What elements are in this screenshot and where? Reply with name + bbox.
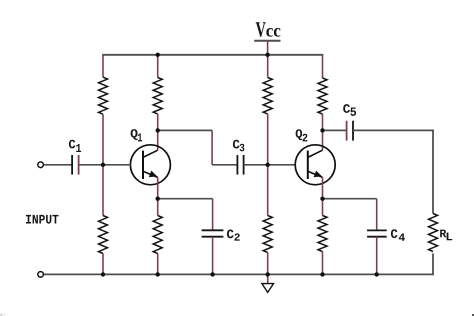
wire Q2 emitter lead bbox=[322, 177, 324, 198]
node bottom rail / column2 bbox=[156, 272, 160, 276]
node Q1 emitter junction bbox=[156, 197, 160, 201]
label C1 bbox=[69, 140, 81, 152]
wire Q2 collector lead bbox=[322, 130, 324, 150]
wire right column down bbox=[432, 130, 434, 213]
node top rail / column2 bbox=[156, 53, 160, 57]
label INPUT bbox=[26, 215, 58, 224]
label Q1 bbox=[131, 129, 143, 141]
label C3 bbox=[233, 140, 244, 152]
node bottom rail / C4 bbox=[375, 272, 379, 276]
node C1 junction bbox=[101, 163, 105, 167]
transistor Q1 bbox=[130, 145, 170, 185]
wire column2 emitter to resistor bbox=[157, 199, 159, 216]
wire C3 to node bbox=[244, 164, 268, 166]
terminal output bottom (open circle) bbox=[38, 272, 44, 278]
node Q1 collector junction bbox=[156, 128, 160, 132]
wire node to Q2 base bbox=[268, 164, 296, 166]
wire Q1 emitter lead bbox=[157, 177, 159, 198]
resistor R6 (lower bias, right) bbox=[263, 216, 272, 253]
wire column5 to collector node bbox=[322, 114, 324, 130]
wire into C3 bbox=[212, 164, 237, 166]
capacitor C3 bbox=[237, 155, 243, 175]
node bottom rail / column1 bbox=[101, 272, 105, 276]
wire top rail bbox=[102, 54, 323, 56]
wire column1 lower bbox=[102, 165, 104, 216]
resistor R3 (Q1 collector) bbox=[153, 78, 162, 114]
wire column4 top bbox=[267, 55, 269, 78]
wire column4 lower bbox=[267, 165, 269, 216]
wire column2 top bbox=[157, 55, 159, 78]
wire ground stub bbox=[267, 274, 269, 283]
node ground junction bbox=[266, 272, 270, 276]
wire emitter to C2 horizontal bbox=[158, 198, 213, 200]
wire Vcc stub bbox=[267, 42, 269, 55]
wire column5 top bbox=[322, 55, 324, 78]
node Q2 collector junction bbox=[320, 128, 324, 132]
wire column2 to collector node bbox=[157, 114, 159, 130]
Vcc terminal bar bbox=[254, 40, 280, 42]
wire down to C4 bbox=[376, 199, 378, 231]
corner artifact bottom-left bbox=[0, 313, 6, 316]
wire collector to C3 horizontal bbox=[158, 129, 212, 131]
node Vcc junction bbox=[265, 53, 269, 57]
wire C2 bottom bbox=[212, 237, 214, 275]
wire column1 top bbox=[102, 55, 104, 77]
node bottom rail / C2 bbox=[210, 272, 214, 276]
Vcc label bbox=[256, 22, 281, 37]
wire column2 bottom bbox=[157, 254, 159, 275]
wire C5 to right corner bbox=[353, 129, 434, 131]
label C5 bbox=[343, 104, 356, 116]
wire column4 middle bbox=[267, 114, 269, 165]
capacitor C4 bbox=[367, 230, 387, 236]
label C4 bbox=[391, 229, 405, 241]
wire column1 middle bbox=[102, 114, 104, 165]
resistor R1 (upper bias, left) bbox=[99, 77, 108, 114]
wire column5 emitter to resistor bbox=[322, 199, 324, 216]
wire input to C1 bbox=[44, 164, 73, 166]
node C3 / bias junction bbox=[266, 163, 270, 167]
wire emitter to C4 horizontal bbox=[323, 198, 377, 200]
wire down to C2 bbox=[212, 199, 214, 231]
wire Q1 collector lead bbox=[157, 130, 159, 150]
transistor Q2 bbox=[295, 145, 335, 185]
wire collector to C5 bbox=[323, 129, 347, 131]
resistor R7 (Q2 collector) bbox=[318, 78, 327, 114]
ground bbox=[262, 284, 274, 293]
label RL bbox=[440, 230, 452, 241]
terminal input (open circle) bbox=[38, 162, 44, 168]
wire corner down to C3 level bbox=[211, 130, 213, 164]
node Q2 emitter junction bbox=[320, 197, 324, 201]
capacitor C5 bbox=[347, 121, 353, 141]
wire C1 to node bbox=[79, 164, 103, 166]
wire bottom rail bbox=[43, 273, 433, 275]
wire column1 bottom bbox=[102, 254, 104, 275]
label C2 bbox=[227, 230, 240, 241]
resistor R5 (upper bias, right) bbox=[263, 78, 272, 114]
wire column5 bottom bbox=[322, 252, 324, 275]
wire column4 bottom bbox=[267, 253, 269, 275]
wire C4 bottom bbox=[376, 237, 378, 275]
label Q2 bbox=[296, 129, 308, 141]
wire RL bottom bbox=[432, 253, 434, 275]
capacitor C1 bbox=[72, 155, 79, 175]
resistor R8 (Q2 emitter) bbox=[318, 216, 327, 252]
node bottom rail / column5 bbox=[320, 272, 324, 276]
corner artifact bbox=[472, 314, 474, 316]
capacitor C2 bbox=[202, 230, 224, 236]
resistor R2 (lower bias, left) bbox=[99, 216, 108, 254]
wire node to Q1 base bbox=[103, 164, 131, 166]
resistor R4 (Q1 emitter) bbox=[153, 216, 162, 254]
resistor RL load bbox=[429, 214, 438, 252]
